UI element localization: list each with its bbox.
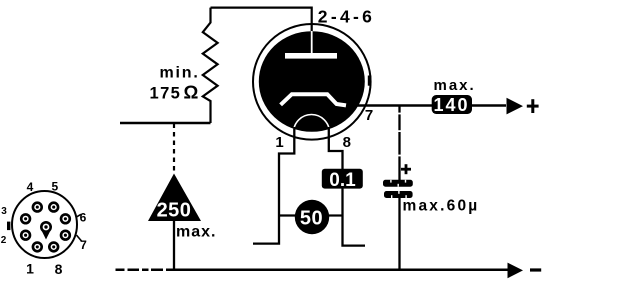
svg-text:6: 6 xyxy=(80,211,87,225)
svg-text:min.: min. xyxy=(160,65,200,82)
svg-text:8: 8 xyxy=(55,261,63,277)
socket pin 6 xyxy=(60,213,71,224)
tube deflection electrode chevron (white) xyxy=(281,94,346,105)
wire triangle to bottom rail xyxy=(173,221,175,270)
electrolytic capacitor max.60u : plus sign xyxy=(401,168,411,171)
wire anode output to + terminal (pin 7) xyxy=(348,104,506,107)
tube anode lead (white, inside) xyxy=(311,31,313,55)
svg-text:7: 7 xyxy=(365,107,373,124)
svg-text:140: 140 xyxy=(433,95,469,115)
svg-text:1: 1 xyxy=(26,261,34,277)
svg-text:0.1: 0.1 xyxy=(329,170,356,191)
wire bottom rail xyxy=(116,269,509,272)
tube heater circle (white arc) xyxy=(294,115,330,133)
socket leader tick 6 xyxy=(76,214,81,217)
socket pin 1 xyxy=(32,241,43,252)
socket pin 2 xyxy=(20,230,31,241)
capacitor C 0.1 (box) xyxy=(322,169,363,189)
input triangle 250 max xyxy=(148,174,201,222)
wire heater pin 1 lead xyxy=(253,127,294,244)
tube pin 9 tick on right edge xyxy=(368,76,372,86)
resistor R1 min.175 ohm xyxy=(203,8,218,123)
tube V1 envelope xyxy=(253,24,371,140)
svg-text:max.: max. xyxy=(176,224,216,241)
wire left horizontal at y=123 xyxy=(120,122,211,124)
output arrow - xyxy=(508,263,524,279)
svg-text:8: 8 xyxy=(343,134,351,151)
wire dashed from y=123 rail down to 250 triangle xyxy=(173,124,175,175)
socket left edge blob xyxy=(7,222,10,231)
wire heater pin 8 lead xyxy=(329,127,365,246)
svg-text:250: 250 xyxy=(157,200,192,222)
socket pin 3 xyxy=(20,213,31,224)
svg-text:3: 3 xyxy=(1,206,7,217)
socket pin 4 xyxy=(32,201,43,212)
svg-text:Ω: Ω xyxy=(184,81,199,102)
wire electrolytic to bottom rail xyxy=(398,198,400,270)
resistor 50 (circle) xyxy=(295,200,329,234)
wire top rail from resistor to tube anode xyxy=(211,8,312,33)
svg-text:7: 7 xyxy=(80,238,87,252)
voltage box 140 xyxy=(432,95,472,114)
svg-text:2: 2 xyxy=(1,235,7,246)
plus sign output xyxy=(527,105,539,108)
tube anode bar (white) xyxy=(285,53,337,59)
svg-text:1: 1 xyxy=(275,134,283,151)
socket outline (bottom view) xyxy=(12,191,77,258)
tube V1 inner black disc xyxy=(259,31,365,132)
minus sign output xyxy=(530,268,541,271)
wire 50 right connector xyxy=(328,214,343,216)
socket pin 7 xyxy=(60,230,71,241)
svg-text:max.60µ: max.60µ xyxy=(403,198,480,215)
output arrow + xyxy=(507,98,524,115)
socket pin 5 xyxy=(48,201,59,212)
socket center key xyxy=(40,221,52,240)
svg-text:max.: max. xyxy=(434,77,476,94)
svg-text:5: 5 xyxy=(51,180,58,194)
socket leader tick 7 xyxy=(77,235,82,241)
wire capacitor branch (dashed) from + rail xyxy=(398,106,400,181)
svg-text:50: 50 xyxy=(300,208,323,230)
electrolytic capacitor top plate xyxy=(383,180,413,187)
svg-text:175: 175 xyxy=(150,84,182,102)
electrolytic capacitor bottom plate xyxy=(384,191,413,198)
svg-text:4: 4 xyxy=(27,180,34,194)
wire 50 left connector xyxy=(279,214,296,216)
socket pin 8 xyxy=(48,241,59,252)
svg-text:2-4-6: 2-4-6 xyxy=(318,7,375,27)
